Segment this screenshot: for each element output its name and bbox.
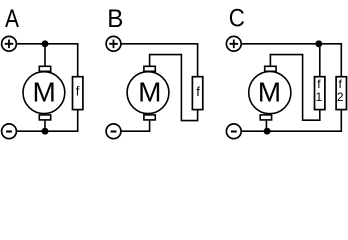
field winding f2 (circuit C, shunt) xyxy=(336,77,346,110)
wire: A field branch vertical (top) xyxy=(77,43,79,77)
svg-text:M: M xyxy=(138,77,161,108)
battery + terminal (circuit B) xyxy=(106,36,121,51)
wire: C bottom rail xyxy=(241,130,341,132)
brush (top) of motor A xyxy=(39,66,50,71)
motor M2 body (circuit B) xyxy=(127,72,169,114)
brush (bottom) of motor B xyxy=(144,115,155,120)
motor M1 body (circuit A) xyxy=(23,72,65,114)
wire: B field bottom to armature top (series link) xyxy=(150,55,198,121)
junction node: C top xyxy=(315,40,322,47)
brush (top) of motor C xyxy=(265,66,276,71)
svg-text:M: M xyxy=(33,77,56,108)
wire: C f1 bottom to armature top (series link) xyxy=(270,55,319,121)
field winding f (circuit B) xyxy=(192,77,202,110)
wire: C f2 bottom to bottom rail xyxy=(340,110,342,132)
wire: C junction down to series field f1 xyxy=(319,44,321,77)
battery - terminal (circuit A) xyxy=(2,124,17,139)
wire: A field branch vertical (bottom) xyxy=(77,110,79,132)
wire: A top junction down to armature xyxy=(44,44,46,67)
wire: C shunt field branch vertical (top) xyxy=(340,43,342,77)
battery - terminal (circuit B) xyxy=(106,124,121,139)
motor M3 body (circuit C) xyxy=(249,72,291,114)
wire: B motor bottom to - terminal xyxy=(121,120,150,131)
brush (bottom) of motor C xyxy=(260,115,271,120)
svg-text:f: f xyxy=(76,83,80,98)
brush (top) of motor B xyxy=(144,66,155,71)
battery + terminal (circuit C) xyxy=(226,36,241,51)
junction node: A bottom xyxy=(42,128,49,135)
wire: C motor bottom to bottom junction xyxy=(265,120,267,131)
svg-text:A: A xyxy=(5,5,19,33)
wire: A bottom rail xyxy=(16,130,77,132)
field winding f1 (circuit C, series) xyxy=(315,77,325,110)
wire: A motor bottom to bottom junction xyxy=(44,120,46,131)
wire: A + terminal to field branch (top rail) xyxy=(16,43,77,45)
svg-text:C: C xyxy=(229,4,245,32)
svg-text:B: B xyxy=(107,5,123,33)
battery - terminal (circuit C) xyxy=(226,124,241,139)
junction node: C bottom xyxy=(264,128,271,135)
svg-text:1: 1 xyxy=(316,90,323,104)
svg-text:2: 2 xyxy=(337,90,344,104)
wire: B + terminal to field (top rail) xyxy=(121,43,198,45)
svg-text:M: M xyxy=(258,77,281,108)
svg-text:f: f xyxy=(196,84,200,99)
brush (bottom) of motor A xyxy=(39,115,50,120)
wire: B field branch vertical (top) xyxy=(197,43,199,77)
junction node: A top xyxy=(42,40,49,47)
field winding f (circuit A) xyxy=(73,77,83,110)
wire: C top rail xyxy=(241,43,341,45)
battery + terminal (circuit A) xyxy=(2,36,17,51)
